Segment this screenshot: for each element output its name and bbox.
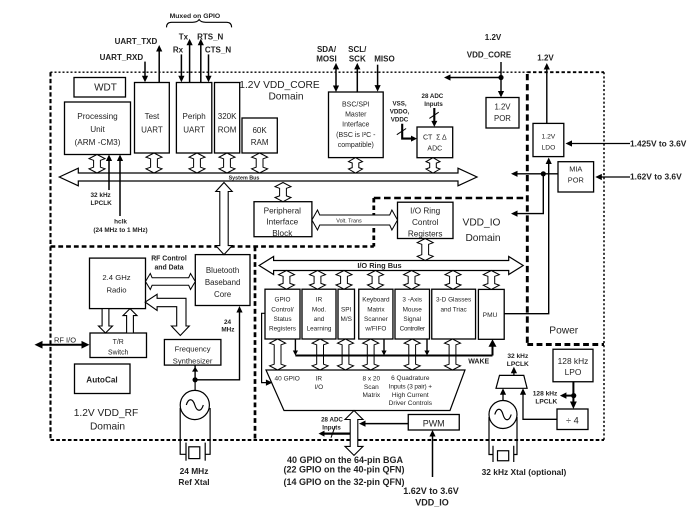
svg-text:SPI: SPI xyxy=(341,306,352,313)
label Muxed on GPIO xyxy=(170,13,221,20)
svg-text:Interface: Interface xyxy=(266,218,298,227)
outer boundary left edge (dashed) xyxy=(49,72,51,440)
wire SDA/MOSI xyxy=(333,63,339,92)
wire RF I/O xyxy=(35,341,90,349)
svg-text:and Triac: and Triac xyxy=(440,306,467,313)
svg-text:Core: Core xyxy=(214,290,232,299)
box 128 kHz LPO xyxy=(553,349,593,382)
box T/R Switch xyxy=(90,333,147,358)
wire PWM to GPIO pins xyxy=(359,421,408,427)
wire PMU to LDO xyxy=(504,158,552,314)
svg-text:1.2V: 1.2V xyxy=(494,103,511,112)
box 3-D Glasses and Triac xyxy=(432,289,476,339)
svg-text:1.425V to 3.6V: 1.425V to 3.6V xyxy=(630,138,687,148)
pad arrow IR xyxy=(312,339,328,370)
svg-text:Domain: Domain xyxy=(465,233,500,244)
svg-text:Matrix: Matrix xyxy=(367,306,385,313)
VDD_IO domain left dashed stub xyxy=(372,198,375,247)
svg-text:Ref Xtal: Ref Xtal xyxy=(178,477,209,487)
svg-text:Volt. Trans: Volt. Trans xyxy=(336,218,362,224)
svg-text:1.2V: 1.2V xyxy=(537,54,554,63)
svg-text:320K: 320K xyxy=(218,112,237,121)
ring arrow GPIO registers xyxy=(279,271,295,290)
box divide-by-4 xyxy=(557,409,588,430)
pad arrow 3-D Glasses xyxy=(445,339,461,370)
svg-text:compatible): compatible) xyxy=(338,142,374,149)
box IR Mod. and Learning xyxy=(302,289,336,339)
svg-text:CT Σ Δ: CT Σ Δ xyxy=(423,135,447,142)
svg-text:÷ 4: ÷ 4 xyxy=(566,416,579,426)
box Peripheral Interface Block xyxy=(254,202,312,238)
svg-text:WAKE: WAKE xyxy=(468,358,489,365)
label 1.62V to 3.6V VDD_IO xyxy=(403,486,459,508)
svg-text:LPCLK: LPCLK xyxy=(507,361,529,368)
svg-text:128 kHz: 128 kHz xyxy=(558,356,589,366)
svg-text:VDD_IO: VDD_IO xyxy=(415,498,449,508)
wire VDD_IO supply to PWM xyxy=(429,430,435,477)
box CT sigma-delta ADC xyxy=(417,127,453,158)
wire LPO output xyxy=(560,382,577,409)
svg-text:24 MHz: 24 MHz xyxy=(180,466,209,476)
svg-text:Keyboard: Keyboard xyxy=(362,297,390,304)
RF control/data double arrow xyxy=(146,274,196,290)
wire Tx xyxy=(187,39,193,83)
box Test UART xyxy=(135,83,170,154)
label MISO xyxy=(374,55,394,64)
svg-text:UART: UART xyxy=(183,126,205,135)
bus arrow 60K RAM xyxy=(252,153,268,173)
bus arrow BSC/SPI xyxy=(349,158,363,173)
outer boundary top edge (fine dashed) xyxy=(51,71,528,73)
node 24 MHz junction xyxy=(193,377,198,382)
svg-text:UART_RXD: UART_RXD xyxy=(100,53,144,62)
svg-text:Processing: Processing xyxy=(77,112,118,121)
svg-text:ADC: ADC xyxy=(427,145,442,152)
bus arrow to Bluetooth Baseband Core xyxy=(216,183,232,255)
svg-text:VDDC: VDDC xyxy=(391,117,409,124)
wire RTS_N xyxy=(198,39,204,83)
svg-text:Power: Power xyxy=(549,326,578,337)
svg-text:MIA: MIA xyxy=(569,165,582,174)
label 1.425V to 3.6V xyxy=(630,138,687,148)
label Rx xyxy=(173,46,184,55)
svg-text:RTS_N: RTS_N xyxy=(197,33,223,42)
box GPIO Control/Status Registers xyxy=(265,289,300,339)
box 60K RAM xyxy=(242,118,277,153)
svg-text:I/O Ring: I/O Ring xyxy=(410,207,440,216)
svg-text:128 kHz: 128 kHz xyxy=(533,390,558,397)
svg-text:MOSI: MOSI xyxy=(316,55,336,64)
svg-text:Unit: Unit xyxy=(90,125,105,134)
svg-text:IR: IR xyxy=(316,297,323,304)
svg-text:Driver Controls: Driver Controls xyxy=(389,400,433,407)
svg-text:Switch: Switch xyxy=(108,349,128,356)
svg-text:POR: POR xyxy=(494,114,511,123)
svg-text:Signal: Signal xyxy=(403,316,421,323)
svg-text:Status: Status xyxy=(273,316,291,323)
bus arrow Periph UART xyxy=(189,153,205,173)
box AutoCal xyxy=(75,364,131,394)
svg-text:PWM: PWM xyxy=(423,418,445,428)
wire 1.425V to 3.6V input xyxy=(566,140,631,146)
svg-text:Control/: Control/ xyxy=(271,306,294,313)
svg-text:RAM: RAM xyxy=(251,138,269,147)
svg-text:Muxed on GPIO: Muxed on GPIO xyxy=(170,13,221,20)
wire 32kHz LPCLK into CPU xyxy=(106,155,112,191)
label VDD_IO Domain xyxy=(463,218,501,245)
svg-text:Registers: Registers xyxy=(408,230,443,239)
svg-text:Master: Master xyxy=(345,112,367,119)
svg-text:Inputs: Inputs xyxy=(424,101,443,108)
svg-text:(14 GPIO on the 32-pin QFN): (14 GPIO on the 32-pin QFN) xyxy=(284,477,405,487)
svg-text:BSC/SPI: BSC/SPI xyxy=(342,102,370,109)
wire Rx xyxy=(178,54,184,82)
bus arrow Processing Unit xyxy=(89,155,105,174)
I/O ring bus xyxy=(259,257,523,275)
ring arrow PMU xyxy=(483,271,499,290)
wire divide-by-4 to mux xyxy=(520,388,557,419)
system bus xyxy=(59,168,477,186)
svg-text:40 GPIO on the 64-pin BGA: 40 GPIO on the 64-pin BGA xyxy=(287,455,404,465)
svg-text:Periph: Periph xyxy=(183,112,206,121)
svg-text:IR: IR xyxy=(316,376,323,383)
svg-text:LPCLK: LPCLK xyxy=(91,200,113,207)
pad arrow Mouse xyxy=(404,339,420,370)
svg-text:hclk: hclk xyxy=(114,218,127,225)
svg-text:w/FIFO: w/FIFO xyxy=(364,326,386,333)
svg-text:(22 GPIO on the 40-pin QFN): (22 GPIO on the 40-pin QFN) xyxy=(284,465,405,475)
svg-text:RF I/O: RF I/O xyxy=(54,335,76,344)
wire SCL/SCK xyxy=(354,63,360,92)
box 320K ROM xyxy=(215,83,240,154)
I/O pad trapezoid xyxy=(266,370,465,411)
svg-text:Rx: Rx xyxy=(173,46,184,55)
svg-text:Registers: Registers xyxy=(269,326,296,333)
svg-text:High Current: High Current xyxy=(392,392,429,399)
wire 24 MHz clock distribution xyxy=(192,306,243,380)
svg-text:Learning: Learning xyxy=(307,326,332,333)
svg-text:1.62V to 3.6V: 1.62V to 3.6V xyxy=(630,172,682,182)
svg-text:WDT: WDT xyxy=(94,82,117,93)
box 2.4 GHz Radio xyxy=(90,258,146,309)
volt. trans double arrow xyxy=(312,210,398,230)
box Frequency Synthesizer xyxy=(164,340,221,366)
svg-text:I/O: I/O xyxy=(314,384,323,391)
arrow T/R Switch to Radio xyxy=(123,309,137,333)
label Power xyxy=(549,326,578,337)
crystal 32 kHz Xtal xyxy=(489,417,517,462)
svg-text:ROM: ROM xyxy=(218,126,237,135)
svg-text:32 kHz Xtal (optional): 32 kHz Xtal (optional) xyxy=(482,467,567,477)
svg-text:3-D Glasses: 3-D Glasses xyxy=(436,297,471,304)
svg-text:LDO: LDO xyxy=(542,145,556,152)
svg-text:Frequency: Frequency xyxy=(175,345,211,354)
box SPI M/S xyxy=(338,289,355,339)
pad arrow GPIO xyxy=(270,339,286,370)
svg-text:Mouse: Mouse xyxy=(403,306,423,313)
svg-text:32 kHz: 32 kHz xyxy=(91,192,111,199)
svg-text:Synthesizer: Synthesizer xyxy=(173,356,213,365)
wire MIA POR output xyxy=(511,171,558,217)
label UART_RXD xyxy=(100,53,144,62)
pad arrow Keyboard xyxy=(363,339,379,370)
svg-text:SCK: SCK xyxy=(349,55,366,64)
label WAKE xyxy=(468,358,489,365)
svg-text:System Bus: System Bus xyxy=(229,175,260,181)
svg-text:32 kHz: 32 kHz xyxy=(507,353,529,360)
svg-text:Control: Control xyxy=(412,218,439,227)
ring arrow Mouse xyxy=(404,271,420,290)
svg-text:Scan: Scan xyxy=(364,384,379,391)
svg-text:Peripheral: Peripheral xyxy=(264,206,302,215)
box WDT xyxy=(74,78,126,98)
svg-text:and: and xyxy=(314,316,325,323)
svg-text:Radio: Radio xyxy=(106,285,126,294)
VDD_IO domain top dashed edge xyxy=(374,197,528,200)
box BSC/SPI Master Interface xyxy=(329,92,384,158)
svg-text:LPO: LPO xyxy=(565,367,582,377)
svg-text:28 ADC: 28 ADC xyxy=(321,416,343,423)
svg-text:(BSC is I²C -: (BSC is I²C - xyxy=(336,132,376,139)
box Keyboard Matrix Scanner w/FIFO xyxy=(359,289,393,339)
svg-text:MISO: MISO xyxy=(374,55,394,64)
label VSS VDDO VDDC xyxy=(390,101,410,124)
wire 28 ADC inputs to ADC xyxy=(429,108,438,127)
svg-text:CTS_N: CTS_N xyxy=(205,46,231,55)
ring arrow SPI xyxy=(336,271,352,290)
wire WAKE rail xyxy=(293,339,497,356)
label RTS_N xyxy=(197,33,223,42)
divider RF/VDD_IO (vertical dashed x=255) xyxy=(254,247,257,441)
svg-text:SDA/: SDA/ xyxy=(317,45,337,54)
bus arrow to Peripheral Interface Block xyxy=(275,183,291,202)
svg-text:1.2V: 1.2V xyxy=(485,33,502,42)
svg-text:(24 MHz to 1 MHz): (24 MHz to 1 MHz) xyxy=(93,227,147,234)
wire 1.2V VDD_CORE supply xyxy=(444,62,504,98)
svg-text:6 Quadrature: 6 Quadrature xyxy=(391,375,430,382)
svg-text:Interface: Interface xyxy=(342,122,369,129)
Power domain top dashed edge xyxy=(527,71,604,73)
svg-text:Controller: Controller xyxy=(400,326,426,333)
svg-text:(ARM -CM3): (ARM -CM3) xyxy=(75,138,121,147)
svg-text:VDD_CORE: VDD_CORE xyxy=(467,51,512,60)
svg-text:T/R: T/R xyxy=(113,339,124,346)
box I/O Ring Control Registers xyxy=(398,202,454,238)
label 32 kHz LPCLK (CPU) xyxy=(91,192,113,207)
svg-text:M/S: M/S xyxy=(341,316,352,323)
label hclk xyxy=(93,218,147,234)
svg-text:Test: Test xyxy=(145,112,160,121)
label 32 kHz Xtal (optional) xyxy=(482,467,567,477)
svg-text:24: 24 xyxy=(224,319,232,326)
divider VDD_CORE/Power (vertical dashed x=527) xyxy=(526,74,529,345)
wire 1.2V LDO output xyxy=(544,63,550,123)
label Tx xyxy=(179,33,189,42)
node MIA POR junction xyxy=(541,171,546,176)
wire VSS/VDDO/VDDC to ADC xyxy=(397,124,417,142)
label 24 MHz Ref Xtal xyxy=(178,466,209,487)
svg-text:PMU: PMU xyxy=(483,312,498,319)
wire UART_RXD xyxy=(142,62,148,83)
svg-text:Mod.: Mod. xyxy=(312,306,326,313)
pad arrow SPI xyxy=(338,339,354,370)
svg-text:2.4 GHz: 2.4 GHz xyxy=(102,273,130,282)
svg-text:Baseband: Baseband xyxy=(205,278,241,287)
label GPIO pin counts xyxy=(284,455,405,487)
label 1.2V VDD_CORE Domain xyxy=(239,80,320,103)
label 1.2V LDO out xyxy=(537,54,554,63)
svg-text:I/O Ring Bus: I/O Ring Bus xyxy=(357,261,401,270)
svg-text:Inputs: Inputs xyxy=(322,425,341,432)
divider CORE bottom (horizontal dashed y=246.5) xyxy=(51,245,374,248)
label 32 kHz LPCLK (mux out) xyxy=(507,353,529,368)
wire hclk into CPU xyxy=(117,155,123,217)
crystal 24 MHz Ref Xtal xyxy=(180,408,210,461)
box Bluetooth Baseband Core xyxy=(195,255,250,306)
arrow I/O Ring Control Registers to ring bus xyxy=(417,239,433,261)
box MIA POR xyxy=(558,162,594,192)
svg-text:3 -Axis: 3 -Axis xyxy=(402,297,422,304)
label 28 ADC inputs top xyxy=(422,93,444,108)
box Processing Unit (ARM-CM3) xyxy=(65,102,131,155)
svg-text:and Data: and Data xyxy=(154,264,183,271)
node LPO junction xyxy=(571,393,576,398)
label UART_TXD xyxy=(115,37,158,46)
label 28 ADC inputs bottom xyxy=(321,416,343,431)
box Periph UART xyxy=(176,83,211,154)
label RF I/O xyxy=(54,335,76,344)
box PWM xyxy=(408,415,459,431)
label SCL/SCK xyxy=(348,45,367,64)
svg-text:Tx: Tx xyxy=(179,33,189,42)
box 1.2V LDO xyxy=(533,123,564,156)
bus arrow Test UART xyxy=(146,153,162,173)
label RF Control and Data xyxy=(151,255,187,271)
svg-text:60K: 60K xyxy=(252,126,267,135)
node 1.2V VDD_CORE junction xyxy=(498,75,503,80)
svg-text:SCL/: SCL/ xyxy=(348,45,367,54)
outer boundary right edge (fine dashed) xyxy=(603,72,605,440)
svg-text:AutoCal: AutoCal xyxy=(86,376,117,385)
box 1.2V POR xyxy=(486,98,519,129)
svg-text:1.2V VDD_RF: 1.2V VDD_RF xyxy=(74,408,139,419)
svg-text:UART: UART xyxy=(141,126,163,135)
svg-text:GPIO: GPIO xyxy=(275,297,291,304)
bus arrow ADC xyxy=(426,158,440,173)
svg-text:40 GPIO: 40 GPIO xyxy=(275,376,300,383)
svg-text:LPCLK: LPCLK xyxy=(535,398,557,405)
svg-text:Domain: Domain xyxy=(268,92,303,103)
oscillator 32 kHz xyxy=(489,401,517,429)
svg-text:VSS,: VSS, xyxy=(392,101,406,108)
svg-text:VDDO,: VDDO, xyxy=(390,109,410,116)
svg-text:UART_TXD: UART_TXD xyxy=(115,37,158,46)
32 kHz clock mux trapezoid xyxy=(496,375,527,388)
svg-text:1.62V to 3.6V: 1.62V to 3.6V xyxy=(403,486,459,496)
svg-text:Block: Block xyxy=(272,229,293,238)
label 24 MHz xyxy=(221,319,234,333)
oscillator 24 MHz xyxy=(180,380,209,420)
elbow arrow radio to frequency synthesizer xyxy=(145,294,189,335)
arrow Radio to T/R Switch xyxy=(99,309,113,333)
ring arrow 3-D Glasses xyxy=(445,271,461,290)
label 1.2V VDD_CORE supply xyxy=(467,33,512,60)
box PMU xyxy=(478,289,504,339)
svg-text:VDD_IO: VDD_IO xyxy=(463,218,501,229)
ring arrow Keyboard xyxy=(368,271,384,290)
wire 1.62V to 3.6V input xyxy=(595,174,630,180)
svg-text:1.2V VDD_CORE: 1.2V VDD_CORE xyxy=(239,80,320,91)
svg-text:Domain: Domain xyxy=(90,422,125,433)
bus arrow 320K ROM xyxy=(219,153,235,173)
svg-text:Matrix: Matrix xyxy=(362,392,380,399)
svg-text:Scanner: Scanner xyxy=(364,316,389,323)
box 3-Axis Mouse Signal Controller xyxy=(395,289,430,339)
svg-text:28 ADC: 28 ADC xyxy=(422,93,444,100)
wire 32k oscillator to mux xyxy=(500,388,506,400)
svg-text:Inputs (3 pair) +: Inputs (3 pair) + xyxy=(389,384,433,391)
wire MISO xyxy=(375,65,381,92)
label CTS_N xyxy=(205,46,231,55)
svg-text:Bluetooth: Bluetooth xyxy=(206,266,239,275)
label 128 kHz LPCLK xyxy=(533,390,558,405)
label SDA/MOSI xyxy=(316,45,337,64)
Power domain bottom dashed edge xyxy=(527,343,604,346)
outer boundary bottom edge (dashed) xyxy=(51,439,605,441)
brace muxed on GPIO xyxy=(167,20,232,28)
svg-text:MHz: MHz xyxy=(221,326,234,333)
ring arrow IR xyxy=(310,271,326,290)
big GPIO pin double arrow xyxy=(345,411,363,456)
wire GPIO feedback to pads xyxy=(262,313,273,385)
wire 28 ADC inputs bottom xyxy=(319,427,351,438)
label 1.2V VDD_RF Domain xyxy=(74,408,139,433)
wire CTS_N xyxy=(205,54,211,82)
wire UART_TXD xyxy=(156,45,162,82)
svg-text:POR: POR xyxy=(568,175,584,184)
wire mux output 32 kHz LPCLK xyxy=(511,367,517,376)
svg-text:8 x 20: 8 x 20 xyxy=(362,376,380,383)
svg-text:RF Control: RF Control xyxy=(151,255,187,262)
svg-text:1.2V: 1.2V xyxy=(542,134,556,141)
label 1.62V to 3.6V xyxy=(630,172,682,182)
